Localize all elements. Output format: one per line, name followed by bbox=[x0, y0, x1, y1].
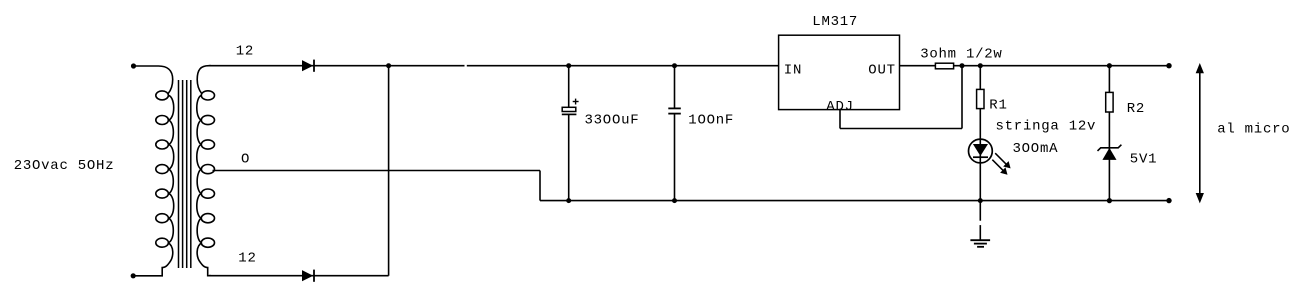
svg-text:stringa 12v: stringa 12v bbox=[996, 119, 1097, 135]
output terminal bottom bbox=[1166, 198, 1171, 203]
svg-text:OUT: OUT bbox=[868, 63, 895, 79]
svg-text:12: 12 bbox=[236, 44, 254, 60]
wire center tap 0 bbox=[213, 170, 541, 172]
wire R1 to rail through LED bbox=[979, 109, 981, 201]
primary top terminal bbox=[131, 63, 136, 68]
node top at C1 bbox=[566, 63, 571, 68]
node rail at zener bbox=[1107, 198, 1112, 203]
svg-text:5V1: 5V1 bbox=[1130, 152, 1157, 168]
node rail at C2 bbox=[672, 198, 677, 203]
transformer T1 secondary winding bbox=[197, 66, 215, 276]
output terminal top bbox=[1166, 63, 1171, 68]
svg-text:33OOuF: 33OOuF bbox=[585, 113, 640, 129]
svg-text:al micro: al micro bbox=[1217, 122, 1290, 138]
wire bottom secondary bbox=[209, 275, 389, 277]
primary bottom terminal bbox=[131, 273, 136, 278]
node R1 top bbox=[978, 63, 983, 68]
svg-text:R2: R2 bbox=[1127, 101, 1145, 117]
svg-text:R1: R1 bbox=[989, 98, 1007, 114]
svg-text:1OOnF: 1OOnF bbox=[688, 113, 734, 129]
diode D1 (top rectifier) bbox=[302, 60, 314, 72]
wire top to LM317 IN bbox=[467, 65, 779, 67]
resistor 3ohm 1/2w bbox=[935, 63, 953, 69]
node top at C2 bbox=[672, 63, 677, 68]
wire ADJ up to output node bbox=[961, 66, 963, 129]
op-amp style box U1 LM317 regulator bbox=[779, 35, 900, 109]
capacitor C1 3300uF (electrolytic) bbox=[562, 66, 579, 201]
wire R2 top bbox=[1108, 66, 1110, 93]
LED D3 bbox=[969, 139, 1011, 175]
node rail at LED/ground bbox=[978, 198, 983, 203]
wire R2 to rail through zener bbox=[1108, 112, 1110, 201]
svg-text:3OOmA: 3OOmA bbox=[1013, 141, 1059, 157]
wire rectifier output vertical bbox=[388, 66, 390, 276]
wire center tap drop bbox=[539, 171, 541, 201]
wire LM317 OUT to right end bbox=[900, 65, 1170, 67]
node rectifier output bbox=[386, 63, 391, 68]
diode D2 (bottom rectifier) bbox=[302, 270, 314, 282]
capacitor C2 100nF bbox=[668, 66, 681, 201]
svg-text:23Ovac 5OHz: 23Ovac 5OHz bbox=[14, 158, 115, 174]
svg-text:IN: IN bbox=[784, 63, 802, 79]
double arrow al micro bbox=[1196, 64, 1203, 202]
ground bbox=[970, 201, 990, 247]
svg-text:3ohm 1/2w: 3ohm 1/2w bbox=[920, 47, 1002, 63]
wire ADJ horizontal bbox=[840, 128, 962, 130]
node ADJ junction bbox=[960, 63, 965, 68]
wire ADJ pin down bbox=[839, 110, 841, 129]
transformer T1 primary winding bbox=[135, 66, 174, 276]
transformer T1 core bbox=[179, 80, 191, 268]
svg-text:LM317: LM317 bbox=[812, 14, 858, 30]
zener diode DZ 5V1 bbox=[1098, 145, 1122, 160]
wire top secondary to gap bbox=[209, 65, 465, 67]
wire ground rail bbox=[540, 200, 1169, 202]
svg-text:12: 12 bbox=[238, 251, 256, 267]
node rail at C1 bbox=[566, 198, 571, 203]
node R2 top bbox=[1107, 63, 1112, 68]
wire R1 top bbox=[979, 66, 981, 90]
svg-text:O: O bbox=[241, 152, 250, 168]
